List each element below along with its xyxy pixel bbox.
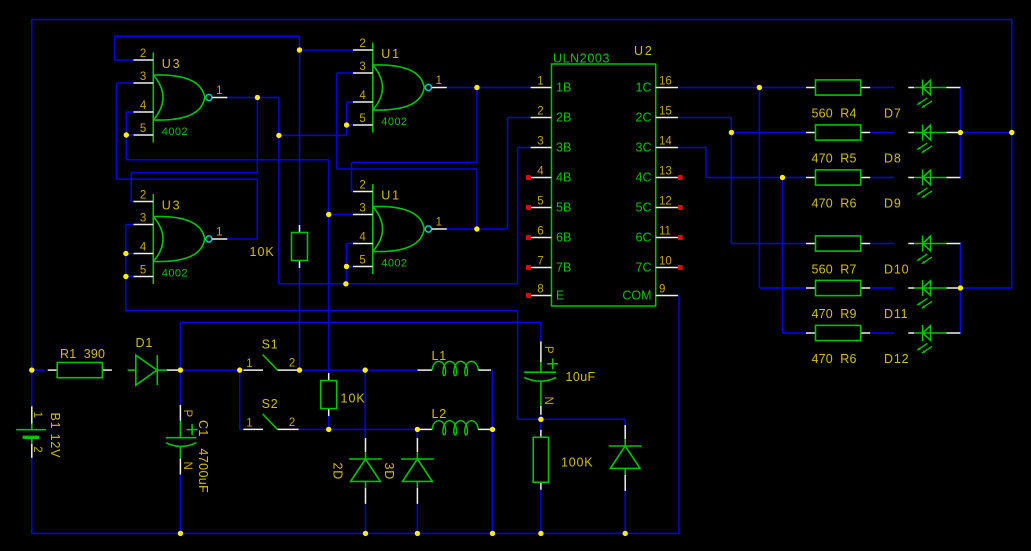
svg-text:5B: 5B: [556, 201, 571, 215]
inductor L2: [418, 421, 491, 435]
svg-text:2C: 2C: [636, 111, 652, 125]
svg-text:P: P: [181, 410, 193, 418]
svg-text:3C: 3C: [636, 141, 652, 155]
wire jumper row D8 to right border: [960, 132, 1011, 134]
LED D10: [908, 236, 960, 264]
junction node U3a out: [255, 95, 260, 100]
junction node timing: [538, 417, 543, 422]
svg-text:3: 3: [359, 202, 365, 214]
svg-text:4: 4: [537, 165, 544, 177]
wire U1a pins45 tie to U3a output: [347, 101, 354, 103]
svg-text:4: 4: [140, 100, 147, 112]
svg-text:470 R5: 470 R5: [812, 152, 857, 166]
wire U3 pin4-pin5 tie: [126, 111, 134, 113]
diode D2: [349, 438, 382, 504]
IC U2 ULN2003: [526, 44, 683, 306]
svg-text:D7: D7: [884, 107, 902, 121]
svg-text:5: 5: [140, 264, 146, 276]
svg-text:9: 9: [659, 283, 665, 295]
resistor 10K upper: [292, 225, 308, 268]
svg-text:2D: 2D: [331, 463, 345, 481]
svg-text:12: 12: [659, 195, 672, 207]
resistor 100K: [533, 430, 548, 490]
svg-text:ULN2003: ULN2003: [553, 52, 610, 66]
junction node S2 10K: [326, 427, 331, 432]
svg-text:S1: S1: [262, 338, 279, 352]
wire D3 bottom: [416, 504, 418, 534]
svg-text:5: 5: [359, 113, 365, 125]
battery B1: [16, 406, 46, 458]
wire COM vertical: [678, 296, 680, 535]
svg-text:2: 2: [537, 105, 543, 117]
border frame wire (supply loop): [32, 19, 1012, 21]
junction node D4 gnd: [623, 531, 628, 536]
junction node D8 right: [958, 130, 963, 135]
resistor R7: [806, 236, 870, 251]
svg-text:U3: U3: [162, 199, 182, 213]
svg-text:560 R7: 560 R7: [812, 263, 857, 277]
wire rectified node up and across to 10uF cap: [179, 322, 181, 370]
wire battery to bottom rail: [31, 458, 33, 534]
svg-text:13: 13: [659, 165, 672, 177]
svg-text:E: E: [556, 289, 564, 303]
junction node U1a pin2 tap: [297, 47, 302, 52]
svg-text:2: 2: [289, 417, 295, 429]
wire U3 pin3 to U3b output: [117, 82, 134, 84]
svg-text:5: 5: [359, 254, 365, 266]
svg-text:4002: 4002: [162, 126, 188, 138]
svg-text:14: 14: [659, 135, 672, 147]
svg-text:D12: D12: [884, 352, 909, 366]
op-gate U3 bottom (4002 NOR): [134, 189, 228, 284]
op-gate U3 top (4002 NOR): [134, 48, 228, 143]
junction node U3b pin5: [123, 274, 128, 279]
svg-text:1: 1: [436, 75, 442, 87]
svg-text:2: 2: [359, 38, 365, 50]
svg-text:470 R6: 470 R6: [812, 197, 857, 211]
junction node S1 pin1: [237, 367, 242, 372]
wire U3 pins45 down to U1b pin3 and 10K2: [125, 135, 127, 160]
svg-text:1: 1: [246, 418, 252, 430]
svg-text:3B: 3B: [556, 141, 571, 155]
wire junction to U1 pin2: [300, 49, 354, 51]
svg-text:1B: 1B: [556, 81, 571, 95]
svg-text:1C: 1C: [636, 81, 652, 95]
diode D4 (unlabeled): [609, 425, 642, 491]
svg-text:D8: D8: [884, 152, 902, 166]
op-gate U1 bottom (4002 NOR): [353, 179, 447, 274]
svg-text:7B: 7B: [556, 261, 571, 275]
resistor R6: [806, 170, 870, 185]
svg-text:D9: D9: [884, 197, 902, 211]
svg-text:B1 12V: B1 12V: [48, 413, 62, 459]
wire D1 node to S1/S2: [180, 369, 243, 371]
junction node U1a pin5: [344, 122, 349, 127]
junction node U3b pin4: [123, 251, 128, 256]
svg-text:4002: 4002: [381, 258, 407, 270]
svg-text:6B: 6B: [556, 231, 571, 245]
wire 100K leads: [540, 419, 542, 430]
switch S1: [243, 338, 298, 371]
svg-text:1: 1: [537, 75, 543, 87]
svg-text:6: 6: [537, 225, 543, 237]
svg-text:15: 15: [659, 105, 672, 117]
wire U1a pin3 to U1b output: [337, 72, 354, 74]
LED D11: [908, 280, 960, 308]
svg-text:1: 1: [31, 412, 43, 418]
wire U1b pins45: [347, 243, 354, 245]
junction node 100K gnd: [538, 531, 543, 536]
resistor R6b: [806, 325, 870, 340]
svg-text:4002: 4002: [162, 268, 188, 280]
svg-text:10K: 10K: [341, 392, 366, 406]
junction node U1a45 tap: [276, 133, 281, 138]
wire L1/L2 outputs down to bottom rail: [491, 369, 492, 371]
junction node U1b pin3 tap: [326, 212, 331, 217]
svg-text:560 R4: 560 R4: [812, 107, 857, 121]
op-gate U1 top (4002 NOR): [353, 38, 447, 133]
svg-text:U1: U1: [381, 189, 401, 203]
svg-text:R1 390: R1 390: [60, 347, 105, 361]
svg-text:5: 5: [537, 195, 543, 207]
svg-text:1: 1: [436, 217, 442, 229]
svg-text:P: P: [542, 346, 554, 354]
junction node D2 gnd: [363, 531, 368, 536]
wire D4 bottom: [624, 487, 626, 535]
svg-text:4002: 4002: [381, 116, 407, 128]
svg-text:1: 1: [246, 358, 252, 370]
LED D8: [908, 125, 960, 153]
svg-text:D11: D11: [884, 307, 908, 321]
svg-text:4: 4: [359, 231, 366, 243]
svg-text:10uF: 10uF: [566, 370, 596, 384]
svg-text:N: N: [181, 462, 193, 470]
svg-text:11: 11: [659, 225, 671, 237]
svg-text:3: 3: [140, 71, 146, 83]
wire right column LEDs 4-6: [959, 243, 961, 334]
svg-text:2B: 2B: [556, 111, 571, 125]
junction node L2 in: [415, 427, 420, 432]
svg-text:COM: COM: [622, 289, 651, 303]
wire jumper row D11 to right border: [960, 287, 1011, 289]
svg-text:3D: 3D: [382, 463, 396, 481]
junction node D3 gnd: [415, 531, 420, 536]
diode D1: [128, 355, 179, 385]
svg-text:4: 4: [359, 90, 366, 102]
svg-text:4C: 4C: [636, 171, 652, 185]
resistor R1: [48, 363, 112, 378]
wire U3a output net: [227, 97, 279, 99]
bottom supply rail: [32, 532, 679, 534]
junction node U1b45 tap: [343, 281, 348, 286]
svg-text:2: 2: [31, 446, 43, 452]
junction node 1C: [757, 85, 762, 90]
junction node U1b pin5: [344, 264, 349, 269]
resistor 10K lower: [321, 373, 337, 416]
svg-text:U3: U3: [162, 57, 182, 71]
wire right column LEDs 1-3: [959, 87, 961, 179]
svg-text:7C: 7C: [636, 261, 652, 275]
resistor R5: [806, 125, 870, 140]
svg-text:100K: 100K: [561, 456, 593, 470]
svg-text:10: 10: [659, 255, 672, 267]
junction node U1b out: [474, 226, 479, 231]
svg-text:3: 3: [140, 212, 146, 224]
junction node L1 in: [363, 367, 368, 372]
wire U3b pins345 to timing node: [126, 224, 134, 226]
svg-text:2: 2: [359, 179, 365, 191]
svg-text:2: 2: [289, 358, 295, 370]
LED D7: [908, 80, 960, 108]
wire 1C to LED rows 1 and 5: [678, 87, 806, 89]
svg-text:3: 3: [537, 135, 543, 147]
svg-text:8: 8: [537, 283, 543, 295]
svg-text:1: 1: [216, 85, 222, 97]
svg-text:2: 2: [140, 189, 146, 201]
svg-text:N: N: [542, 397, 554, 405]
wire U1b output to 2B: [446, 228, 507, 230]
wire 2C to LED rows 2 and 4: [678, 117, 731, 119]
junction node border row2: [1009, 130, 1014, 135]
wire U1a output to 1B and U1b pin2: [446, 87, 530, 89]
svg-text:2: 2: [140, 48, 146, 60]
svg-text:470 R6: 470 R6: [812, 352, 857, 366]
wire top loop to U3 pin2 / U1 pin2 / 10K: [115, 35, 300, 37]
junction node 3C: [780, 175, 785, 180]
svg-text:470 R9: 470 R9: [812, 307, 857, 321]
svg-text:4B: 4B: [556, 171, 571, 185]
junction node U3a pin5: [124, 132, 129, 137]
resistor R4: [806, 80, 870, 95]
junction node L gnd: [490, 531, 495, 536]
wire 10K to S1: [299, 262, 301, 371]
wire junction to diode D4: [541, 418, 625, 420]
svg-text:7: 7: [537, 255, 543, 267]
wires resistor-to-LED for each row: [871, 87, 895, 89]
svg-text:1: 1: [216, 227, 222, 239]
svg-text:C1 4700uF: C1 4700uF: [196, 420, 210, 493]
capacitor C1 4700uF: [166, 405, 198, 475]
svg-text:L2: L2: [432, 407, 448, 421]
inductor L1: [418, 361, 491, 375]
svg-text:U2: U2: [634, 44, 654, 58]
svg-text:5: 5: [140, 123, 146, 135]
wire 10uF bottom to junction node: [540, 415, 542, 420]
svg-text:D10: D10: [884, 263, 909, 277]
junction node rectified: [178, 367, 183, 372]
wire 3C to LED rows 3 and 6: [678, 147, 706, 149]
svg-text:U1: U1: [381, 47, 401, 61]
svg-text:5C: 5C: [636, 201, 652, 215]
svg-text:L1: L1: [432, 349, 448, 363]
junction node 2C: [729, 130, 734, 135]
svg-text:3: 3: [359, 61, 365, 73]
LED D9: [908, 170, 960, 198]
wire S2 row to L2 and D3: [298, 428, 422, 430]
diode D3: [401, 438, 434, 504]
wire C1 branch: [179, 371, 181, 405]
svg-text:4: 4: [140, 241, 147, 253]
svg-text:D1: D1: [136, 336, 154, 350]
svg-text:6C: 6C: [636, 231, 652, 245]
svg-text:S2: S2: [262, 397, 279, 411]
wire S1 to L1 and D2: [298, 369, 418, 371]
junction node L2 out: [490, 427, 495, 432]
junction node U1a out: [474, 85, 479, 90]
junction node S1 pin2: [297, 367, 302, 372]
junction node C1 gnd: [178, 531, 183, 536]
junction node battery+: [29, 367, 34, 372]
LED D12: [908, 325, 960, 353]
switch S2: [243, 397, 298, 430]
junction node D11 right: [958, 285, 963, 290]
wire battery row to R1: [32, 369, 45, 371]
capacitor 10uF: [524, 341, 558, 414]
wire D2 bottom: [365, 504, 367, 534]
svg-text:10K: 10K: [250, 245, 275, 259]
svg-text:16: 16: [659, 75, 672, 87]
resistor R9: [806, 280, 870, 295]
